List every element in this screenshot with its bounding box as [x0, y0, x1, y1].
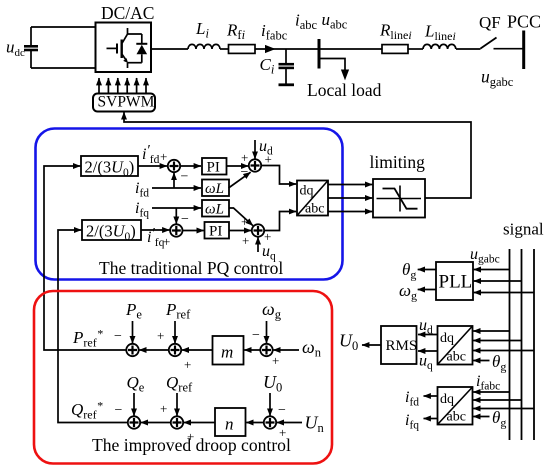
- inductor Lline: [423, 44, 456, 49]
- wires bus to PLL: [474, 269, 510, 271]
- wg arrow into sumE: [266, 321, 268, 343]
- svg-text:dq: dq: [440, 331, 454, 346]
- wire with ifabc arrow: [255, 48, 319, 50]
- converter DC/AC box: [96, 23, 152, 73]
- svg-text:+: +: [265, 152, 272, 167]
- svg-text:ugabc: ugabc: [470, 246, 500, 266]
- wire: [220, 48, 229, 50]
- resistor Rfi: [229, 45, 256, 54]
- svg-text:Rlinei: Rlinei: [379, 21, 412, 43]
- svg-text:+: +: [272, 353, 279, 368]
- svg-text:ωg: ωg: [399, 281, 417, 303]
- signal bus line 3: [533, 249, 535, 440]
- PI controller PI2: [205, 222, 230, 239]
- svg-text:Li: Li: [195, 19, 209, 41]
- svg-text:ωg: ωg: [262, 299, 282, 322]
- svg-text:+: +: [160, 149, 167, 164]
- dc source udc battery: [24, 27, 38, 68]
- summing junction sumA: [126, 344, 138, 356]
- svg-text:θg: θg: [492, 352, 506, 374]
- wire sum2 to PI2: [182, 230, 204, 232]
- svg-text:abc: abc: [447, 410, 466, 425]
- svg-text:m: m: [221, 343, 233, 362]
- feedforward uq arrow: [257, 237, 259, 252]
- svg-text:DC/AC: DC/AC: [101, 3, 154, 23]
- svg-text:ifq: ifq: [135, 200, 149, 220]
- svg-text:PCC: PCC: [507, 12, 541, 32]
- svg-text:+: +: [157, 328, 164, 343]
- RMS block: [381, 326, 417, 364]
- local load branch: [319, 59, 348, 80]
- svg-text:U0: U0: [339, 331, 358, 354]
- svg-text:signal: signal: [503, 220, 544, 239]
- svg-text:The traditional PQ control: The traditional PQ control: [99, 258, 283, 278]
- wire wL1 diagonal to sum3: [229, 172, 251, 188]
- svg-text:n: n: [225, 415, 234, 434]
- PI controller PI1: [202, 158, 227, 175]
- svg-text:ωL: ωL: [205, 202, 224, 218]
- red frame improved droop control: [34, 291, 332, 464]
- svg-text:−: −: [241, 165, 249, 180]
- summing junction sum1: [168, 160, 180, 172]
- svg-text:uabc: uabc: [322, 10, 348, 32]
- vdq output uq: [418, 350, 438, 352]
- Qref arrow into sumD: [176, 393, 178, 416]
- idq output ifd: [424, 395, 438, 397]
- blue frame traditional PQ control: [36, 129, 343, 280]
- wire m to sumB: [182, 349, 213, 351]
- wn arrow into sumE: [273, 349, 299, 351]
- feedback wire limiting output to SVPWM: [124, 112, 471, 198]
- svg-text:ud: ud: [419, 317, 433, 337]
- summing junction sumC: [128, 416, 140, 428]
- svg-text:+: +: [163, 234, 170, 249]
- svg-text:abc: abc: [447, 350, 466, 365]
- wire sum1 to PI1: [180, 165, 201, 167]
- summing junction sum4: [252, 224, 264, 236]
- svg-text:Qe: Qe: [127, 373, 145, 395]
- wire converter output: [151, 48, 188, 50]
- svg-text:Pref*: Pref*: [72, 327, 103, 350]
- svg-text:θg: θg: [402, 260, 416, 282]
- thetag stub into vdq: [473, 360, 489, 362]
- svg-text:ifd: ifd: [135, 180, 149, 200]
- svg-text:uq: uq: [419, 353, 433, 373]
- svg-text:i′fd: i′fd: [142, 143, 160, 167]
- svg-text:SVPWM: SVPWM: [98, 94, 155, 111]
- svg-text:U0: U0: [263, 372, 282, 395]
- wire sum3 to dq block: [261, 166, 296, 185]
- svg-text:limiting: limiting: [370, 152, 426, 172]
- svg-text:−: −: [278, 403, 286, 418]
- wire sumD to sumC: [141, 422, 171, 424]
- wire sumE to m: [244, 349, 260, 351]
- svg-text:dq: dq: [440, 392, 454, 407]
- wire switch to PCC: [494, 48, 523, 50]
- summing junction sumD: [171, 416, 183, 428]
- limiting block: [373, 179, 425, 218]
- wire ifq: [152, 207, 201, 209]
- svg-text:The improved droop control: The improved droop control: [92, 435, 291, 455]
- svg-text:QF: QF: [479, 13, 501, 32]
- gate drive arrows SVPWM to converter: [99, 78, 146, 94]
- diode D1 anti-parallel: [136, 34, 147, 63]
- wire ifq down into sum2: [175, 208, 177, 224]
- svg-text:Rfi: Rfi: [226, 21, 246, 43]
- svg-text:−: −: [181, 170, 189, 185]
- svg-text:PLL: PLL: [439, 272, 473, 293]
- decoupling block wL1: [202, 180, 229, 197]
- thetag stub into idq: [473, 416, 489, 418]
- wire ifd: [152, 187, 201, 189]
- U0 arrow into sumF: [269, 393, 271, 416]
- capacitor Ci branch: [279, 49, 295, 85]
- SVPWM block: [93, 94, 155, 112]
- svg-text:θg: θg: [492, 408, 506, 430]
- svg-text:PI: PI: [207, 160, 220, 176]
- wire: [408, 48, 423, 50]
- wire dc top: [31, 26, 96, 28]
- svg-text:ifabc: ifabc: [261, 21, 288, 43]
- svg-text:2/(3U0): 2/(3U0): [86, 222, 136, 244]
- wire gain to sum2: [141, 229, 170, 231]
- transform block dq/abc pq: [297, 181, 328, 217]
- summing junction sumB: [169, 344, 181, 356]
- wire PI1 to sum3: [227, 165, 249, 167]
- svg-text:ωL: ωL: [205, 181, 224, 197]
- svg-text:Pe: Pe: [125, 300, 142, 322]
- resistor Rline: [382, 45, 408, 54]
- svg-text:ifabc: ifabc: [476, 373, 500, 393]
- wires dq outputs to limiting: [328, 184, 372, 186]
- gain block 2/(3U0) d-axis: [81, 156, 138, 176]
- svg-text:+: +: [241, 150, 248, 165]
- svg-text:−: −: [115, 403, 123, 418]
- svg-text:Llinei: Llinei: [424, 22, 456, 44]
- droop gain block n: [215, 408, 246, 436]
- svg-text:Un: Un: [305, 413, 325, 436]
- svg-text:ifd: ifd: [405, 389, 419, 409]
- PLL output thetag: [418, 269, 436, 271]
- svg-text:2/(3U0): 2/(3U0): [85, 158, 135, 180]
- summing junction sum3: [249, 159, 261, 171]
- wire Qref* feedback into gain block q: [58, 230, 128, 423]
- summing junction sumE: [260, 344, 272, 356]
- PLL block: [436, 262, 473, 300]
- wires bus to idq: [473, 391, 509, 393]
- svg-text:Qref*: Qref*: [71, 399, 103, 422]
- wire sumB to sumA: [139, 349, 169, 351]
- Pref arrow into sumB: [174, 321, 176, 343]
- svg-text:Ci: Ci: [260, 55, 275, 77]
- wires bus to vdq: [473, 330, 509, 332]
- svg-text:iabc: iabc: [295, 11, 318, 33]
- bus bar node uabc: [318, 39, 321, 69]
- svg-text:ifq: ifq: [405, 412, 419, 432]
- idq output ifq: [424, 418, 438, 420]
- svg-text:ωn: ωn: [302, 337, 322, 360]
- svg-text:−: −: [181, 212, 189, 227]
- svg-text:RMS: RMS: [386, 338, 418, 354]
- svg-text:Local load: Local load: [307, 80, 382, 100]
- Un arrow into sumF: [277, 422, 302, 424]
- summing junction sumF: [264, 416, 276, 428]
- wire sumF to n: [246, 422, 264, 424]
- wire Pref* feedback into gain block: [44, 166, 127, 350]
- wire to switch: [456, 48, 481, 50]
- wire dc bottom: [31, 67, 96, 69]
- svg-text:abc: abc: [305, 202, 324, 217]
- summing junction sum2: [170, 224, 182, 236]
- gain block 2/(3U0) q-axis: [82, 220, 141, 240]
- droop gain block m: [213, 336, 244, 365]
- svg-text:i′fq: i′fq: [147, 226, 165, 250]
- svg-text:PI: PI: [209, 224, 222, 240]
- wire wL2 diagonal to sum4: [229, 208, 253, 226]
- breaker QF blade: [481, 38, 497, 49]
- Pe arrow into sumA: [132, 321, 134, 343]
- signal bus line 2: [521, 249, 523, 440]
- RMS output U0: [362, 344, 381, 346]
- transform block dq/abc voltage: [438, 326, 473, 365]
- svg-text:−: −: [252, 328, 260, 343]
- svg-text:Qref: Qref: [166, 373, 193, 395]
- IGBT Q1 inside converter: [107, 28, 142, 68]
- svg-text:Pref: Pref: [165, 300, 191, 322]
- signal bus line 1: [509, 249, 511, 440]
- decoupling block wL2: [202, 200, 229, 217]
- transform block dq/abc current: [438, 387, 473, 425]
- vdq output ud: [418, 334, 438, 336]
- svg-text:+: +: [184, 357, 191, 372]
- wire bus to Rline: [319, 48, 382, 50]
- svg-text:−: −: [114, 329, 122, 344]
- svg-text:+: +: [160, 401, 167, 416]
- PLL output wg: [418, 289, 436, 291]
- svg-text:ugabc: ugabc: [481, 67, 514, 90]
- wire sum4 to dq block: [264, 212, 296, 231]
- feedforward ud arrow: [254, 140, 256, 159]
- svg-text:dq: dq: [300, 184, 314, 199]
- wire ifd feedback up into sum1: [173, 173, 175, 188]
- inductor Li: [188, 44, 220, 49]
- svg-text:+: +: [242, 233, 249, 248]
- Qe arrow into sumC: [133, 393, 135, 416]
- wire gain to sum1: [138, 165, 167, 167]
- wire n to sumD: [184, 422, 215, 424]
- wire PI2 to sum4: [229, 230, 251, 232]
- svg-text:udc: udc: [6, 38, 25, 60]
- PCC bar: [522, 31, 525, 70]
